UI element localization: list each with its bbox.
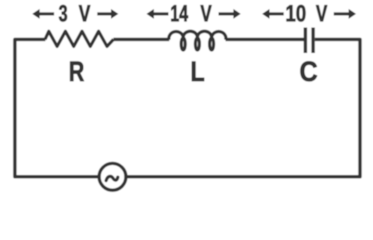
arrow right of 3 V (97, 9, 118, 19)
inductor L loop 3 (210, 38, 214, 50)
arrow right of 10 V (334, 9, 356, 19)
designator label R (70, 62, 84, 81)
inductor L loop 2 (195, 38, 199, 50)
inductor L coil humps (169, 31, 226, 40)
wire: top segment between inductor and capacitor (226, 38, 305, 41)
designator label L (192, 62, 204, 81)
AC source sine tilde (106, 176, 118, 180)
designator label C (301, 61, 318, 81)
capacitor C right plate (311, 28, 314, 54)
value label "V" (316, 5, 327, 21)
arrow left of 10 V (262, 9, 284, 19)
arrow left of 3 V (32, 9, 54, 19)
value label "V" (201, 5, 212, 21)
value label "3" of 3 V (59, 5, 67, 22)
capacitor C left plate (304, 28, 307, 54)
value label "10" of 10 V (287, 5, 306, 22)
AC source circle (99, 163, 126, 190)
wire: top segment between resistor and inductor (113, 38, 169, 41)
inductor L loop 1 (181, 38, 185, 50)
wire: outer loop (left vertical, bottom, right vertical, top end stubs) (15, 39, 360, 176)
value label "14" of 14 V (171, 5, 188, 21)
resistor R zigzag (45, 31, 114, 46)
arrow right of 14 V (219, 9, 241, 19)
value label "V" (79, 5, 91, 21)
arrow left of 14 V (147, 9, 169, 19)
